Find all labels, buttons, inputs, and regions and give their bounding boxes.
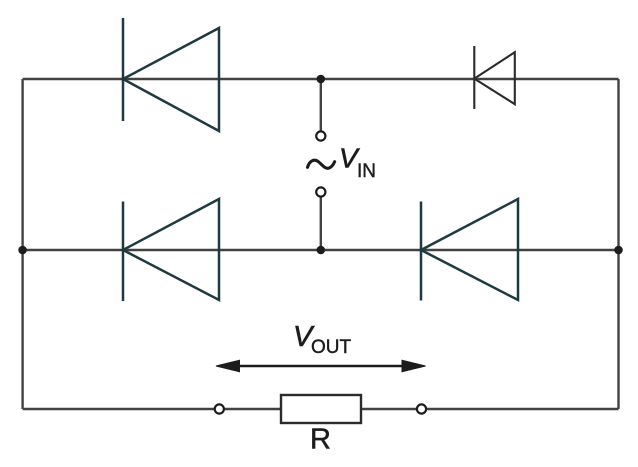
svg-text:IN: IN [357, 161, 376, 182]
svg-text:OUT: OUT [311, 337, 352, 358]
svg-text:R: R [310, 424, 331, 456]
